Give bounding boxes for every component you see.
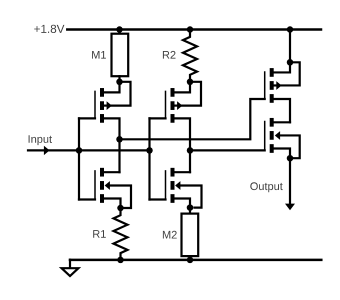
wire PMOS1 drain down — [104, 118, 120, 172]
node VDD-M1 junction — [116, 26, 123, 33]
node M2 bottom junction — [187, 257, 194, 264]
label R1 — [93, 230, 106, 238]
wire PMOS3 bulk to node — [281, 62, 300, 85]
resistor M2 (box) — [182, 208, 199, 260]
wire PMOS2 drain down — [175, 118, 191, 172]
wire bottom VSS rail — [70, 259, 321, 262]
wire NMOS1 bulk to node — [110, 186, 132, 209]
wire input line — [28, 149, 150, 151]
wire PMOS1 source to node — [104, 84, 120, 92]
wire PMOS1 bulk to node — [112, 82, 131, 106]
node M1 bottom junction — [116, 79, 123, 86]
wire PMOS2 gate lead — [150, 117, 166, 119]
wire stage1 output to stage3 pmos gate — [120, 99, 265, 139]
node input-stage2 junction — [146, 147, 153, 154]
resistor R1 (zigzag) — [114, 208, 128, 260]
wire NMOS2 source to node — [175, 199, 191, 208]
node R1 top junction — [117, 205, 124, 212]
wire NMOS2 bulk to node — [180, 186, 202, 208]
transistor NMOS second stage — [166, 168, 181, 203]
node R1 bottom junction — [117, 257, 124, 264]
transistor PMOS second stage — [166, 88, 183, 123]
node R2 bottom junction — [187, 79, 194, 86]
node output junction — [287, 155, 294, 162]
wire PMOS1 gate lead — [79, 117, 95, 119]
node stage2 output junction — [187, 147, 194, 154]
wire VDD down to stage3 — [289, 30, 291, 63]
wire NMOS1 source to node — [104, 199, 121, 209]
transistor PMOS first stage — [95, 88, 112, 123]
wire top VDD rail — [67, 28, 321, 31]
node VDD-stage3 junction — [287, 26, 294, 33]
wire NMOS1 drain up — [104, 171, 120, 173]
label M1 — [92, 51, 106, 59]
resistor M1 (box) — [112, 30, 129, 82]
wire stage2 output to stage3 nmos gate — [190, 149, 265, 151]
net +1.8V label — [34, 25, 64, 33]
input arrowhead — [44, 146, 50, 155]
transistor NMOS third stage — [265, 118, 280, 153]
node VDD-R2 junction — [187, 26, 194, 33]
wire NMOS2 gate lead — [150, 198, 166, 200]
wire output with arrow — [289, 158, 291, 205]
output arrowhead — [285, 204, 295, 211]
node M2 top junction — [187, 204, 194, 211]
ground — [62, 260, 79, 276]
node stage1 output junction — [116, 136, 123, 143]
transistor PMOS third stage — [265, 68, 282, 103]
node stage3 source tie junction — [287, 59, 294, 66]
wire NMOS1 gate lead — [79, 198, 95, 200]
wire input gate branch stage1 — [78, 118, 80, 199]
label Input — [29, 135, 52, 145]
wire PMOS3 drain down — [274, 99, 290, 122]
resistor R2 (zigzag) — [183, 30, 197, 82]
label R2 — [163, 51, 176, 59]
transistor NMOS first stage — [95, 168, 110, 203]
wire PMOS3 source to node — [274, 65, 290, 73]
wire NMOS3 drain up — [274, 121, 290, 123]
wire NMOS3 source to node — [274, 149, 290, 159]
wire NMOS2 drain up — [175, 171, 191, 173]
label M2 — [163, 231, 177, 239]
wire PMOS2 source to node — [175, 84, 191, 92]
wire PMOS2 bulk to node — [182, 82, 201, 106]
wire NMOS3 bulk to node — [280, 135, 300, 158]
label Output — [250, 182, 282, 192]
wire input gate branch stage2 — [148, 118, 150, 199]
node input-stage1 junction — [76, 147, 83, 154]
